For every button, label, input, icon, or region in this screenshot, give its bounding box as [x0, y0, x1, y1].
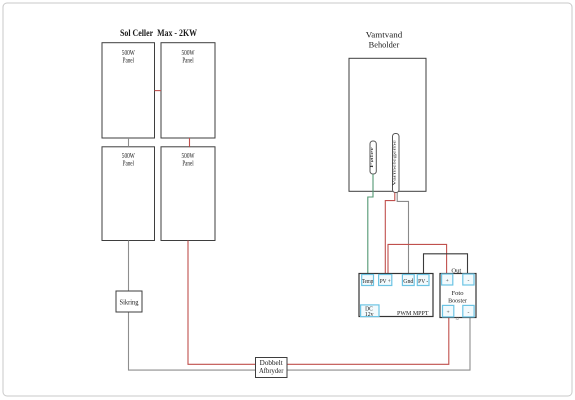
wire gray heating element to Gnd [397, 193, 408, 276]
svg-text:12: 12 [455, 317, 459, 321]
svg-text:Dobbelt: Dobbelt [260, 360, 283, 367]
svg-text:Sikring: Sikring [120, 298, 139, 306]
svg-text:Out: Out [451, 267, 461, 274]
wire gray panel3 to Sikring [128, 241, 130, 292]
terminal in plus [443, 305, 454, 317]
svg-text:-: - [467, 278, 469, 284]
solar panel 1 (500W, top-left) [102, 43, 155, 138]
wire green sensor to Temp [368, 174, 373, 275]
svg-text:+: + [447, 310, 450, 316]
svg-text:Afbryder: Afbryder [259, 368, 284, 375]
terminal out plus [442, 274, 453, 285]
svg-text:Panel: Panel [123, 55, 134, 64]
svg-text:Gnd: Gnd [403, 279, 413, 285]
svg-text:Foto: Foto [452, 290, 465, 297]
controller PWM MPPT box [359, 274, 433, 318]
svg-text:PWM MPPT: PWM MPPT [397, 310, 429, 317]
wire dark PV- to Foto Booster out minus [424, 254, 468, 275]
terminal PV- [417, 275, 429, 286]
wire gray panel1-panel3 [128, 138, 130, 147]
booster Foto Booster box [440, 274, 476, 318]
tank Vamtvand Beholder [349, 31, 426, 192]
solar panel 2 (500W, top-right) [161, 43, 215, 138]
svg-text:Føler: Føler [369, 146, 374, 168]
terminal out minus [463, 274, 474, 285]
terminal in minus [463, 305, 474, 317]
wire red heating element to PV+ [385, 193, 395, 276]
wire red panel1-panel2 [155, 90, 162, 92]
svg-text:Beholder: Beholder [369, 41, 400, 50]
solar panel 4 (500W, bottom-right) [161, 147, 215, 241]
svg-text:PV -: PV - [418, 279, 428, 285]
svg-text:Panel: Panel [182, 55, 193, 64]
fuse Sikring [116, 291, 142, 312]
svg-text:+: + [446, 278, 449, 284]
solar panel 3 (500W, bottom-left) [102, 147, 155, 241]
svg-text:12v: 12v [365, 311, 374, 318]
svg-text:PV +: PV + [380, 279, 392, 285]
svg-text:Panel: Panel [123, 158, 134, 167]
svg-text:Varmelegeme: Varmelegeme [392, 140, 397, 186]
svg-text:Sol Celler Max - 2KW: Sol Celler Max - 2KW [120, 29, 197, 39]
sensor Foler pill [369, 141, 376, 174]
svg-text:Panel: Panel [182, 158, 193, 167]
svg-text:Vamtvand: Vamtvand [366, 31, 402, 40]
terminal PV+ [379, 275, 392, 286]
svg-text:Booster: Booster [448, 298, 468, 305]
svg-text:Temp: Temp [362, 279, 373, 285]
svg-text:-: - [467, 310, 469, 316]
terminal DC 12v [361, 305, 379, 318]
heating element Varmelegeme pill [392, 134, 399, 193]
wire red panel2-panel4 [189, 138, 191, 147]
terminal Temp [362, 275, 374, 286]
wire gray Sikring to Foto Booster minus input [129, 312, 471, 370]
wire red PV+ to Foto Booster out plus [388, 244, 447, 275]
wire red panel4 to Foto Booster plus input [188, 241, 449, 365]
breaker Dobbelt Afbryder [256, 358, 288, 378]
terminal Gnd [402, 275, 414, 286]
